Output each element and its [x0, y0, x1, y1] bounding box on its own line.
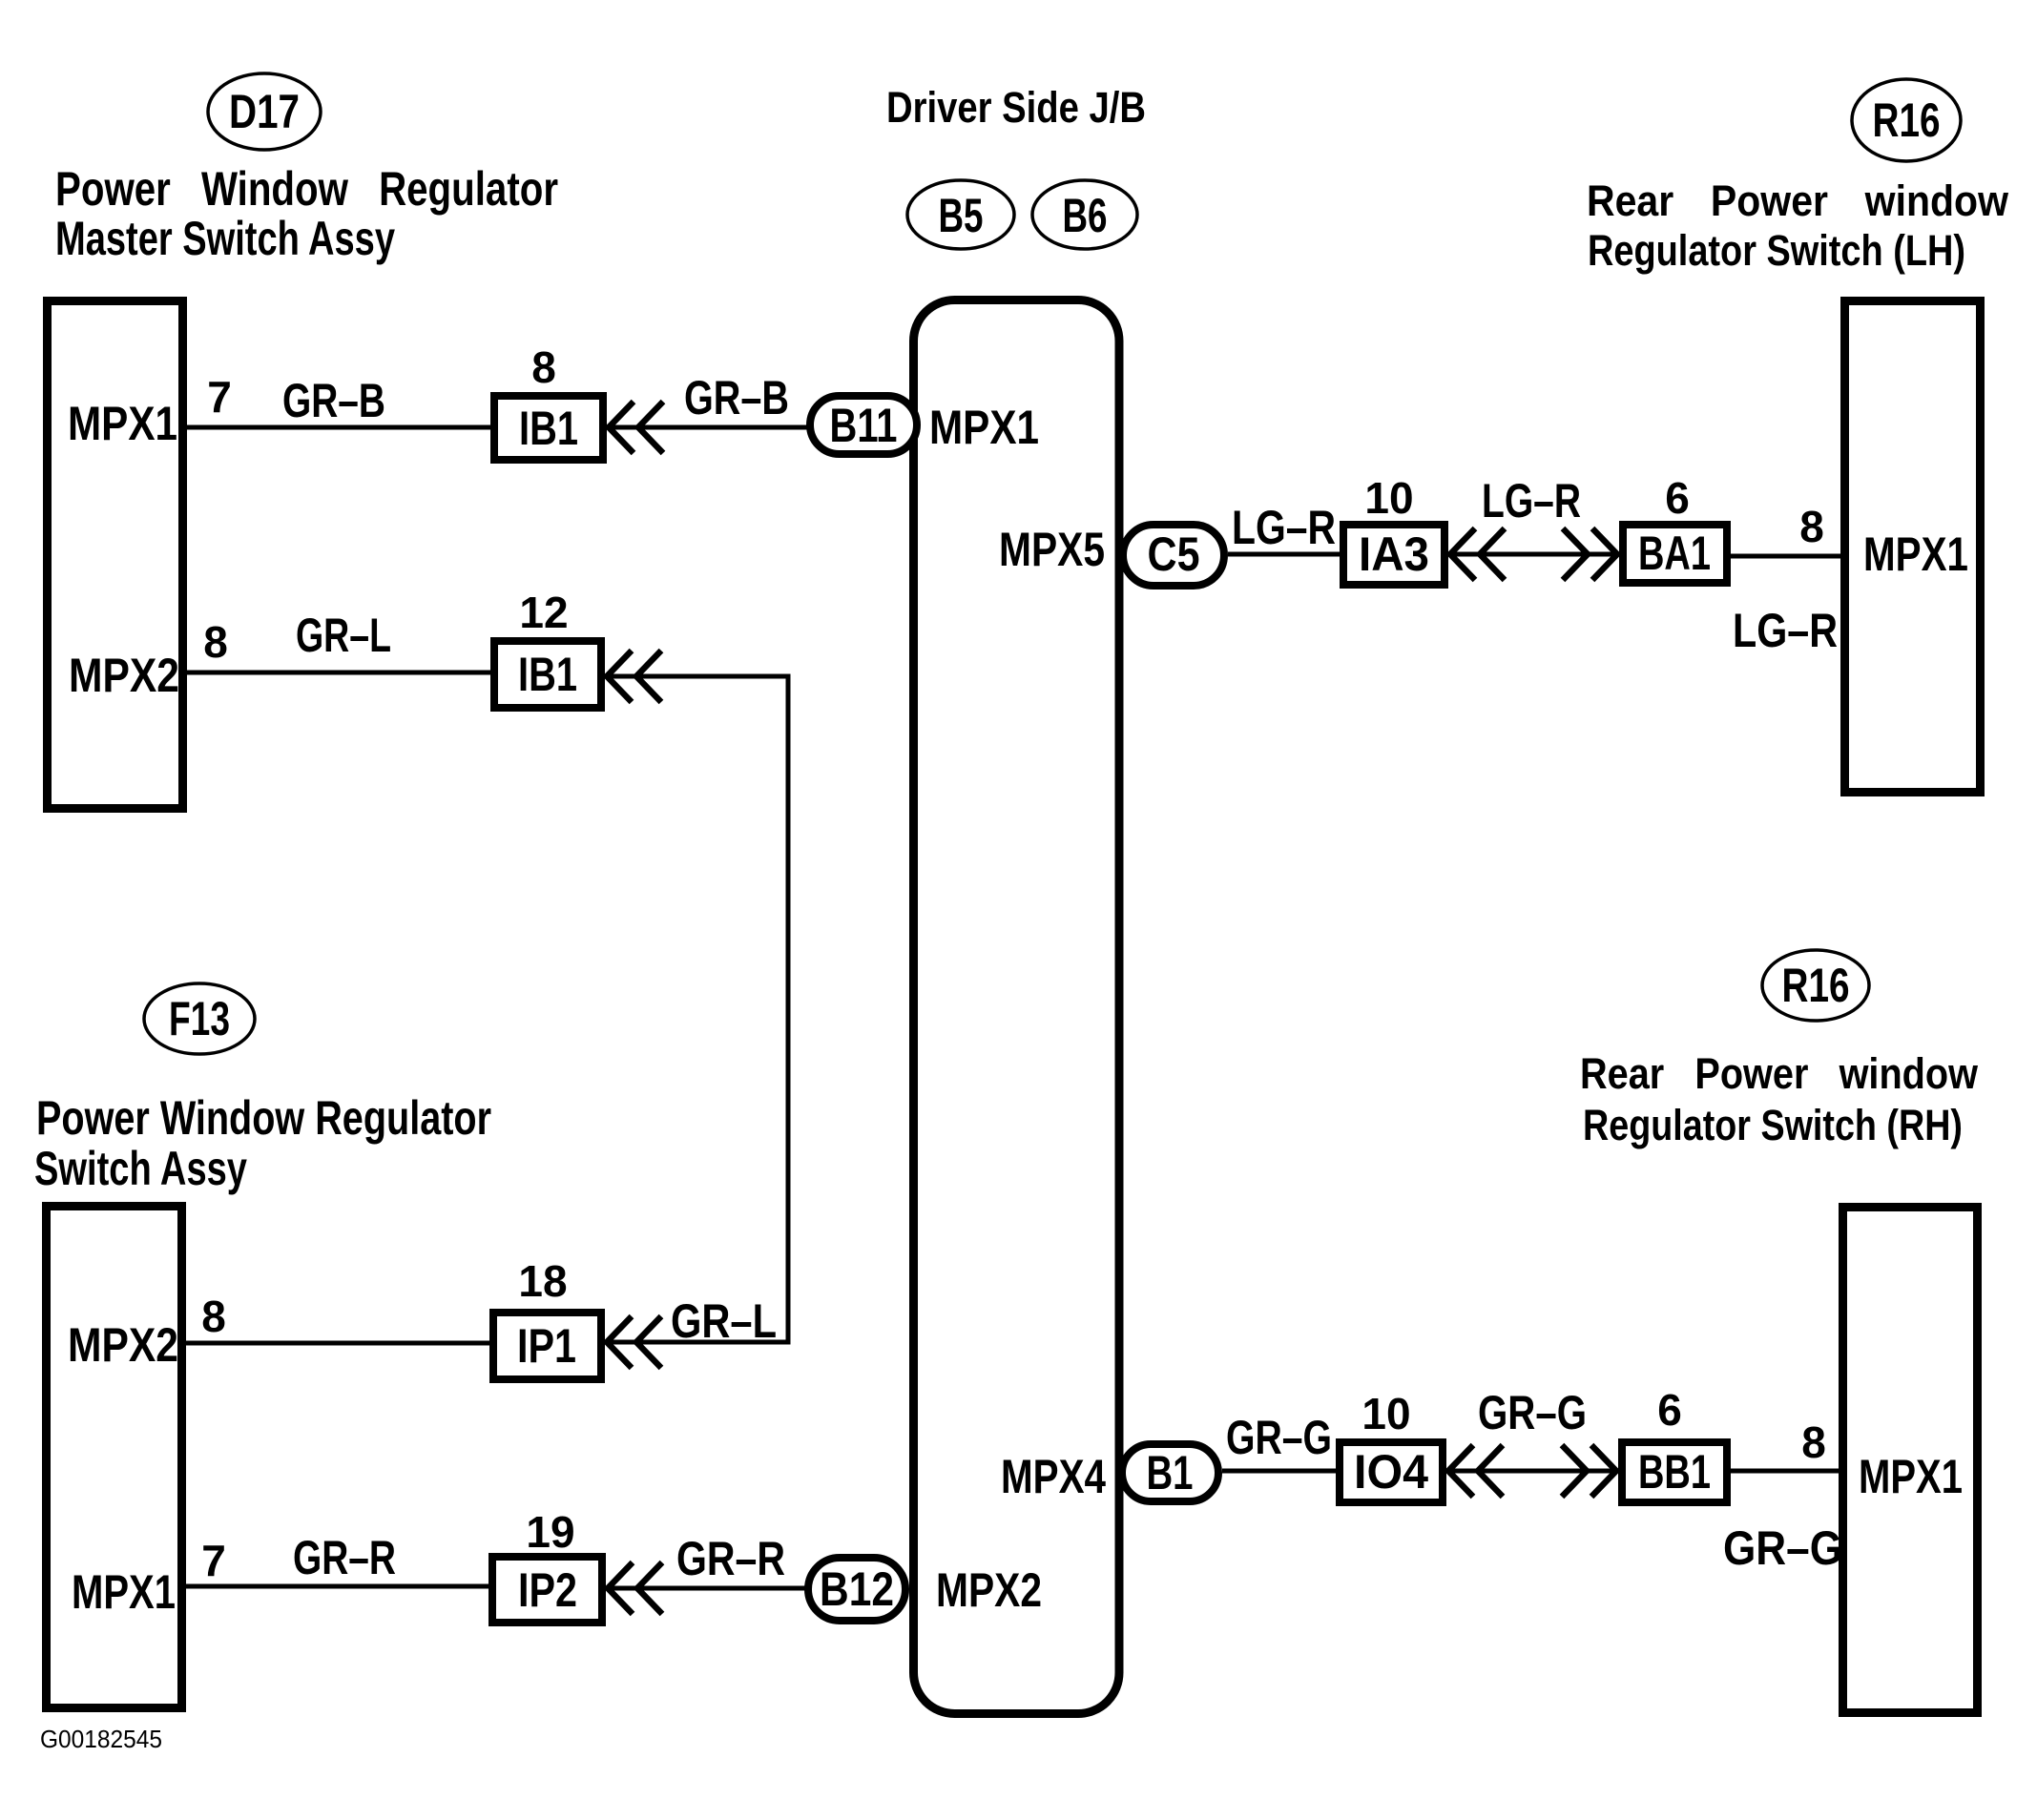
connector oval B1 [1122, 1444, 1218, 1501]
svg-text:8: 8 [201, 1292, 226, 1341]
net label MPX5 (J/B) [999, 523, 1105, 576]
svg-text:6: 6 [1657, 1385, 1682, 1435]
arrow chevrons at IO4 (pointing left) [1448, 1445, 1503, 1497]
pin label MPX2 (switch assy) [68, 1318, 178, 1372]
svg-text:18: 18 [518, 1256, 567, 1306]
arrow chevrons at IP1 [607, 1316, 661, 1368]
svg-text:IB1: IB1 [519, 402, 578, 455]
connector ellipse B5 [907, 180, 1014, 249]
svg-text:GR–G: GR–G [1478, 1386, 1587, 1439]
svg-text:19: 19 [526, 1507, 574, 1557]
svg-text:10: 10 [1361, 1389, 1410, 1438]
svg-text:8: 8 [203, 617, 228, 667]
pin number 8 (switch assy MPX2) [201, 1292, 226, 1341]
junction block: Driver Side J/B body [914, 300, 1120, 1714]
svg-text:MPX2: MPX2 [936, 1563, 1042, 1617]
connector ellipse D17 [208, 73, 321, 150]
wire label GR-L (at IP1) [671, 1294, 777, 1348]
connector oval C5 [1123, 525, 1224, 586]
svg-text:GR–G: GR–G [1226, 1411, 1332, 1464]
pin number 8 (master switch MPX2) [203, 617, 228, 667]
title: Power Window Regulator Switch Assy [34, 1091, 491, 1195]
pin number 7 (switch assy MPX1) [201, 1536, 226, 1585]
component: Rear Power Window Regulator Switch (LH) body [1845, 301, 1981, 793]
svg-text:F13: F13 [169, 992, 230, 1045]
svg-text:MPX5: MPX5 [999, 523, 1105, 576]
svg-text:Switch Assy: Switch Assy [34, 1142, 247, 1195]
wire LG-R (IA3 to BA1) [1448, 552, 1623, 557]
title: Rear Power window Regulator Switch (RH) [1580, 1049, 1979, 1149]
svg-text:6: 6 [1665, 473, 1690, 523]
wire label GR-R (left) [293, 1531, 396, 1584]
svg-text:R16: R16 [1782, 959, 1850, 1012]
svg-text:Master Switch Assy: Master Switch Assy [55, 212, 395, 265]
connector box IP2 [492, 1557, 602, 1623]
svg-text:MPX1: MPX1 [1859, 1450, 1963, 1503]
wire GR-L (master switch to IB1 row2) [186, 671, 494, 675]
svg-text:B12: B12 [820, 1562, 894, 1616]
connector box IB1 (row 1) [494, 396, 603, 460]
wire label LG-R (middle) [1482, 474, 1581, 527]
connector ellipse R16 (RH) [1762, 950, 1869, 1021]
svg-text:IA3: IA3 [1359, 527, 1429, 581]
svg-text:7: 7 [201, 1536, 226, 1585]
svg-text:B6: B6 [1063, 189, 1108, 242]
pin number 10 (above IO4) [1361, 1389, 1410, 1438]
connector box IO4 [1340, 1442, 1443, 1502]
wire label GR-G (left) [1226, 1411, 1332, 1464]
svg-text:GR–B: GR–B [684, 371, 789, 424]
connector box IA3 [1343, 525, 1445, 585]
svg-text:GR–R: GR–R [293, 1531, 396, 1584]
svg-text:LG–R: LG–R [1232, 501, 1336, 554]
pin label MPX2 (master switch) [69, 649, 179, 702]
svg-text:GR–R: GR–R [676, 1532, 785, 1585]
pin number 8 (RH switch) [1801, 1417, 1826, 1467]
svg-text:MPX1: MPX1 [929, 401, 1039, 454]
svg-text:D17: D17 [229, 85, 300, 138]
wire GR-L (IB1 row2 to vertical run to IP1) [605, 676, 788, 1342]
svg-text:IO4: IO4 [1354, 1445, 1428, 1499]
svg-text:B11: B11 [830, 399, 898, 452]
svg-text:LG–R: LG–R [1482, 474, 1581, 527]
arrow chevrons at BA1 (pointing right) [1563, 528, 1617, 580]
svg-text:C5: C5 [1148, 527, 1200, 581]
component: Power Window Regulator Switch Assy body [47, 1207, 182, 1708]
arrow chevrons at IA3 (pointing left) [1450, 528, 1505, 580]
svg-text:Rear Power window: Rear Power window [1587, 176, 2009, 225]
wire GR-B (B11 to IB1) [607, 425, 808, 430]
svg-text:Driver Side J/B: Driver Side J/B [886, 83, 1146, 132]
connector oval B11 [810, 396, 917, 454]
svg-text:8: 8 [1801, 1417, 1826, 1467]
connector box IB1 (row 2) [494, 641, 601, 708]
svg-text:MPX1: MPX1 [68, 397, 177, 450]
arrow chevrons at BB1 (pointing right) [1562, 1445, 1616, 1497]
svg-text:10: 10 [1364, 473, 1413, 523]
pin number 6 (above BB1) [1657, 1385, 1682, 1435]
svg-text:B5: B5 [939, 189, 984, 242]
svg-text:7: 7 [207, 372, 232, 422]
connector ellipse B6 [1032, 180, 1137, 249]
svg-text:Power Window Regulator: Power Window Regulator [36, 1091, 491, 1145]
wire label GR-R (right) [676, 1532, 785, 1585]
wire GR-R (switch assy MPX1 to IP2) [186, 1584, 492, 1589]
pin label MPX1 (master switch) [68, 397, 177, 450]
wire label GR-G (middle) [1478, 1386, 1587, 1439]
svg-text:R16: R16 [1873, 93, 1941, 147]
wire GR-G (B1 to IO4) [1222, 1469, 1340, 1474]
arrow chevrons at IP2 [608, 1562, 662, 1614]
connector box BA1 [1623, 525, 1727, 583]
pin number 18 (above IP1) [518, 1256, 567, 1306]
connector ellipse R16 (LH) [1852, 79, 1961, 161]
svg-text:IB1: IB1 [518, 648, 577, 701]
net label MPX4 (J/B) [1001, 1450, 1106, 1503]
wire LG-R (BA1 to LH switch) [1731, 554, 1844, 559]
component: Rear Power Window Regulator Switch (RH) body [1843, 1208, 1978, 1713]
wire GR-R (IP2 to B12) [606, 1586, 806, 1591]
wire GR-G (IO4 to BB1) [1446, 1469, 1622, 1474]
pin number 8 (above IB1) [531, 342, 556, 392]
pin number 6 (above BA1) [1665, 473, 1690, 523]
pin label MPX1 (RH switch) [1859, 1450, 1963, 1503]
wire label GR-B (right) [684, 371, 789, 424]
connector oval B12 [808, 1558, 905, 1621]
svg-text:IP1: IP1 [517, 1319, 576, 1373]
wire label GR-G (below right) [1723, 1521, 1842, 1575]
svg-text:Power Window Regulator: Power Window Regulator [55, 162, 558, 216]
svg-text:Rear Power window: Rear Power window [1580, 1049, 1979, 1098]
wire label LG-R (below right) [1733, 604, 1838, 657]
pin label MPX1 (LH switch) [1863, 527, 1968, 581]
svg-text:G00182545: G00182545 [40, 1725, 162, 1753]
wire GR-G (BB1 to RH switch) [1731, 1469, 1842, 1474]
title: Power Window Regulator Master Switch Assy [55, 162, 558, 265]
component: Power Window Regulator Master Switch Assy body [48, 301, 183, 809]
wire label LG-R (left) [1232, 501, 1336, 554]
connector box IP1 [493, 1313, 601, 1379]
svg-text:IP2: IP2 [518, 1563, 577, 1617]
net label MPX1 (J/B) [929, 401, 1039, 454]
svg-text:GR–G: GR–G [1723, 1521, 1842, 1575]
pin number 12 (above IB1 row2) [519, 588, 568, 637]
svg-text:Regulator Switch (LH): Regulator Switch (LH) [1588, 226, 1965, 275]
svg-text:BA1: BA1 [1638, 527, 1711, 580]
svg-text:8: 8 [1799, 502, 1824, 551]
arrow chevrons at IB1 row1 [609, 402, 663, 453]
svg-text:B1: B1 [1147, 1446, 1194, 1499]
svg-text:GR–L: GR–L [671, 1294, 777, 1348]
svg-text:12: 12 [519, 588, 568, 637]
wire LG-R (C5 to IA3) [1228, 552, 1343, 557]
arrow chevrons at IB1 row2 [607, 651, 661, 702]
svg-text:Regulator Switch (RH): Regulator Switch (RH) [1583, 1101, 1963, 1149]
pin number 10 (above IA3) [1364, 473, 1413, 523]
svg-text:LG–R: LG–R [1733, 604, 1838, 657]
svg-text:GR–L: GR–L [296, 609, 391, 662]
wire (switch assy MPX2 to IP1) [186, 1341, 493, 1346]
svg-text:8: 8 [531, 342, 556, 392]
pin number 8 (LH switch) [1799, 502, 1824, 551]
title: Rear Power window Regulator Switch (LH) [1587, 176, 2009, 275]
svg-text:BB1: BB1 [1638, 1445, 1711, 1499]
pin number 19 (above IP2) [526, 1507, 574, 1557]
svg-text:MPX1: MPX1 [1863, 527, 1968, 581]
figure number G00182545 [40, 1725, 162, 1753]
wire label GR-B [282, 374, 385, 427]
svg-text:MPX1: MPX1 [72, 1565, 176, 1619]
pin label MPX1 (switch assy) [72, 1565, 176, 1619]
wire label GR-L [296, 609, 391, 662]
svg-text:GR–B: GR–B [282, 374, 385, 427]
svg-text:MPX2: MPX2 [69, 649, 179, 702]
wire GR-B (master switch to IB1) [187, 425, 494, 430]
connector box BB1 [1622, 1442, 1727, 1502]
title: Driver Side J/B [886, 83, 1146, 132]
net label MPX2 (J/B bottom) [936, 1563, 1042, 1617]
svg-text:MPX4: MPX4 [1001, 1450, 1106, 1503]
connector ellipse F13 [144, 983, 255, 1054]
svg-text:MPX2: MPX2 [68, 1318, 178, 1372]
pin number 7 (master switch MPX1) [207, 372, 232, 422]
